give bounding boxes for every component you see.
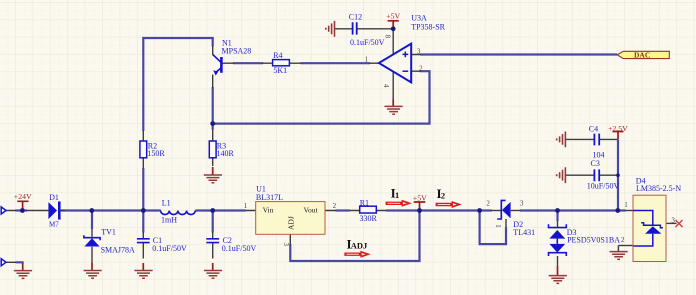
svg-text:U3A: U3A — [411, 14, 427, 23]
svg-text:TV1: TV1 — [101, 228, 116, 237]
svg-text:C3: C3 — [591, 159, 600, 168]
svg-text:BL317L: BL317L — [256, 193, 283, 202]
svg-text:0.1uF/50V: 0.1uF/50V — [350, 38, 385, 47]
svg-text:C12: C12 — [349, 12, 362, 21]
svg-text:D1: D1 — [49, 193, 59, 202]
svg-text:2: 2 — [441, 190, 445, 200]
svg-text:2: 2 — [486, 200, 490, 208]
svg-text:L1: L1 — [162, 199, 171, 208]
svg-text:Vin: Vin — [263, 206, 274, 215]
svg-text:3: 3 — [282, 243, 290, 247]
svg-text:+2.5V: +2.5V — [608, 124, 628, 133]
svg-text:4: 4 — [382, 84, 390, 88]
svg-text:SMAJ78A: SMAJ78A — [101, 245, 135, 254]
svg-text:TL431: TL431 — [513, 228, 535, 237]
svg-text:R4: R4 — [273, 51, 282, 60]
svg-text:10uF/50V: 10uF/50V — [587, 181, 620, 190]
svg-text:+5V: +5V — [386, 12, 400, 21]
svg-text:140R: 140R — [217, 149, 235, 158]
svg-text:TP358-SR: TP358-SR — [411, 22, 445, 31]
svg-text:1: 1 — [395, 190, 399, 200]
svg-text:PESD5V0S1BA: PESD5V0S1BA — [567, 236, 620, 245]
svg-text:1: 1 — [624, 201, 628, 209]
svg-text:0.1uF/50V: 0.1uF/50V — [222, 244, 257, 253]
svg-text:MPSA28: MPSA28 — [222, 47, 252, 56]
svg-text:+5V: +5V — [413, 193, 427, 202]
svg-text:8: 8 — [384, 35, 392, 39]
svg-text:3: 3 — [520, 200, 524, 208]
svg-text:150R: 150R — [147, 149, 165, 158]
svg-text:1: 1 — [365, 56, 369, 64]
svg-text:1: 1 — [244, 202, 248, 210]
svg-text:3: 3 — [671, 216, 675, 224]
svg-text:1mH: 1mH — [161, 216, 177, 225]
svg-text:R1: R1 — [360, 198, 369, 207]
svg-text:C4: C4 — [589, 125, 598, 134]
svg-text:LM385-2.5-N: LM385-2.5-N — [636, 184, 681, 193]
svg-text:ADJ: ADJ — [351, 241, 368, 251]
svg-text:+24V: +24V — [14, 192, 32, 201]
svg-text:DAC: DAC — [634, 51, 650, 60]
svg-text:Vout: Vout — [304, 206, 319, 215]
svg-text:1: 1 — [494, 224, 502, 228]
svg-text:0.1uF/50V: 0.1uF/50V — [152, 244, 187, 253]
svg-text:M7: M7 — [49, 220, 59, 228]
svg-text:330R: 330R — [360, 214, 378, 223]
svg-text:5K1: 5K1 — [273, 66, 287, 75]
svg-text:2: 2 — [333, 202, 337, 210]
svg-text:2: 2 — [419, 64, 423, 72]
svg-text:ADJ: ADJ — [287, 216, 296, 230]
svg-text:3: 3 — [417, 48, 421, 56]
svg-text:2: 2 — [621, 236, 625, 244]
